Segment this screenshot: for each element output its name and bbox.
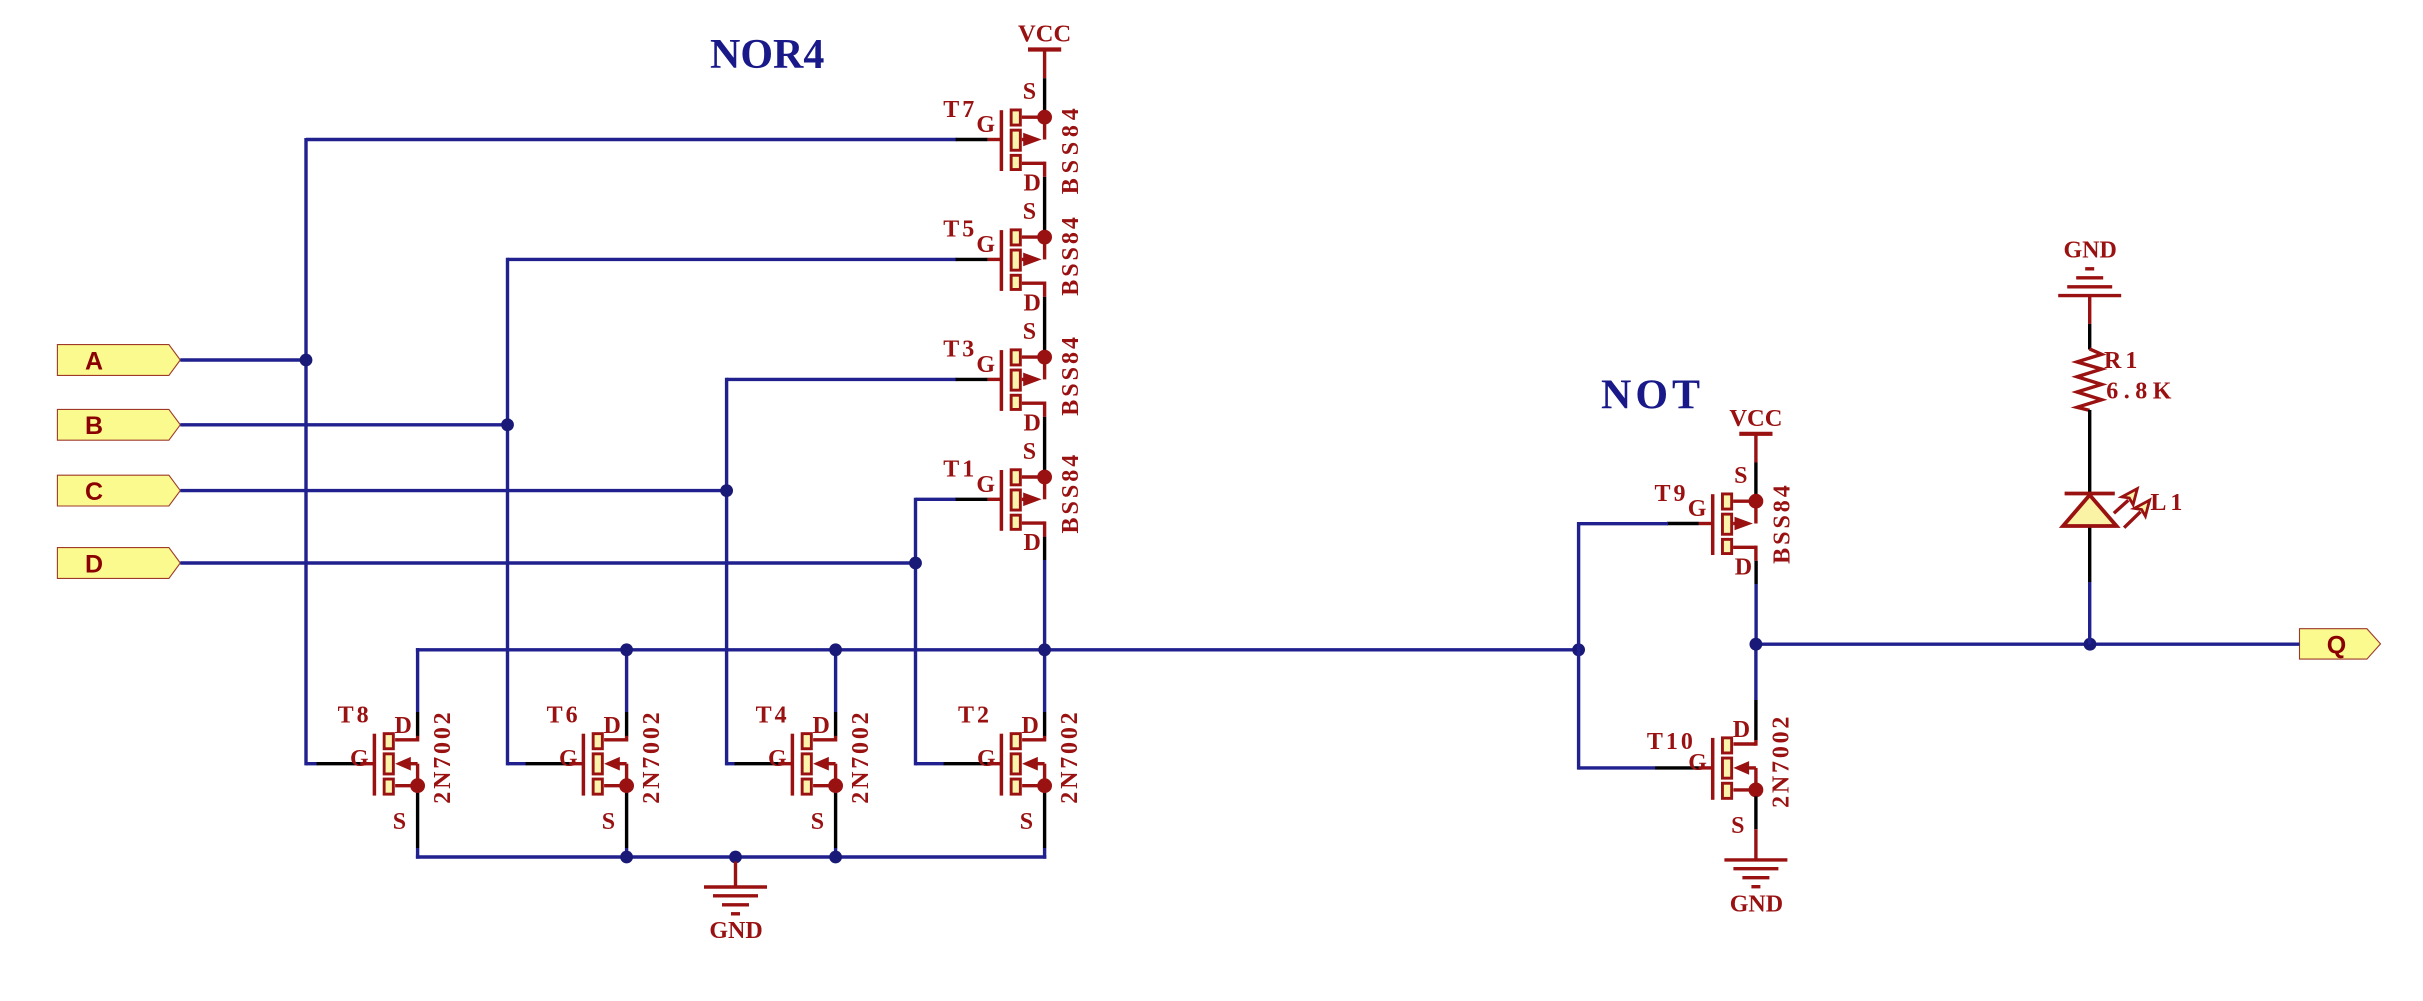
ground symbol GND (NOR4 rail) xyxy=(704,862,767,945)
wire LED to output rail xyxy=(2088,528,2091,582)
wire T2 source lead xyxy=(1043,792,1046,848)
input port flag B xyxy=(57,409,180,440)
svg-text:T8: T8 xyxy=(338,703,372,729)
svg-text:T6: T6 xyxy=(547,703,581,729)
LED L1 xyxy=(2063,489,2186,528)
power symbol VCC (NOR4) xyxy=(1018,21,1071,118)
transistor T8 (2N7002 NMOS) xyxy=(317,703,457,835)
svg-text:2N7002: 2N7002 xyxy=(848,710,874,804)
transistor T2 (2N7002 NMOS) xyxy=(944,703,1084,835)
svg-text:Q: Q xyxy=(2327,631,2346,659)
svg-text:2N7002: 2N7002 xyxy=(1057,710,1083,804)
svg-text:NOT: NOT xyxy=(1601,373,1704,419)
svg-text:GND: GND xyxy=(709,918,762,944)
output port flag Q xyxy=(2300,629,2381,660)
power symbol VCC (NOT) xyxy=(1729,405,1782,502)
svg-text:BSS84: BSS84 xyxy=(1769,482,1795,564)
input port flag C xyxy=(57,475,180,506)
resistor R1 6.8K xyxy=(2077,348,2177,410)
transistor T3 (BSS84 PMOS) xyxy=(943,319,1084,436)
svg-text:L1: L1 xyxy=(2150,490,2186,516)
transistor T4 (2N7002 NMOS) xyxy=(735,703,875,835)
junction node net C xyxy=(720,484,733,497)
ground symbol GND (NOT) xyxy=(1724,829,1787,917)
wire T3 drain to T1 source xyxy=(1043,417,1046,477)
svg-text:6.8K: 6.8K xyxy=(2106,378,2177,404)
wire net C from flag xyxy=(180,489,728,492)
wire T6 source lead xyxy=(625,792,628,848)
wire net D to T2 gate stub xyxy=(916,762,945,765)
svg-text:T7: T7 xyxy=(943,97,977,123)
wire T2 drain riser xyxy=(1043,650,1046,712)
wire NOR output rail xyxy=(416,648,1579,651)
junction node net D xyxy=(909,557,922,570)
svg-text:T1: T1 xyxy=(943,457,977,483)
junction node T2 drain / NOR out xyxy=(1038,643,1051,656)
wire T1 drain to output rail xyxy=(1043,537,1046,560)
wire T6 drain riser xyxy=(625,650,628,712)
transistor T1 (BSS84 PMOS) xyxy=(943,439,1084,556)
svg-text:T2: T2 xyxy=(958,703,992,729)
transistor T9 (BSS84 PMOS) xyxy=(1655,463,1796,580)
wire net C to T3 gate xyxy=(727,378,957,381)
wire T5 drain to T3 source xyxy=(1043,297,1046,357)
wire net D from flag xyxy=(180,561,917,564)
junction node T6 source xyxy=(620,851,633,864)
junction node NOT output xyxy=(1750,638,1763,651)
junction node ground stem xyxy=(729,851,742,864)
wire net A from flag xyxy=(180,358,307,361)
svg-text:T10: T10 xyxy=(1647,729,1696,755)
wire net C vertical riser xyxy=(725,378,728,766)
junction node T4 source xyxy=(829,851,842,864)
wire NOT input to T9 gate xyxy=(1579,522,1668,525)
svg-text:2N7002: 2N7002 xyxy=(639,710,665,804)
svg-text:R1: R1 xyxy=(2104,348,2141,374)
junction node net A xyxy=(300,354,313,367)
transistor T7 (BSS84 PMOS) xyxy=(943,79,1084,196)
wire ground rail xyxy=(416,855,1046,858)
svg-text:T5: T5 xyxy=(943,217,977,243)
wire T8 source lead xyxy=(416,792,419,848)
junction node T4 drain xyxy=(829,643,842,656)
transistor T10 (2N7002 NMOS) xyxy=(1647,714,1795,839)
input port flag D xyxy=(57,548,180,579)
junction node NOT input tee xyxy=(1572,643,1585,656)
wire NOT output rail to Q xyxy=(1756,643,2300,646)
svg-text:NOR4: NOR4 xyxy=(710,32,824,78)
wire net D to T1 gate xyxy=(916,498,957,501)
svg-text:A: A xyxy=(85,347,103,375)
wire R1 to LED xyxy=(2088,410,2091,493)
input port flag A xyxy=(57,345,180,376)
svg-text:GND: GND xyxy=(2064,238,2117,264)
wire net B from flag xyxy=(180,423,509,426)
wire T10 source lead xyxy=(1754,796,1757,829)
svg-text:2N7002: 2N7002 xyxy=(430,710,456,804)
wire net B vertical riser xyxy=(506,258,509,766)
wire T4 drain riser xyxy=(834,650,837,712)
svg-text:T9: T9 xyxy=(1655,481,1689,507)
wire net A to T8 gate stub xyxy=(306,762,318,765)
wire net B to T5 gate xyxy=(508,258,957,261)
wire net A to T7 gate xyxy=(306,138,957,141)
junction node LED branch xyxy=(2084,638,2097,651)
svg-text:D: D xyxy=(85,550,103,578)
wire T8 drain riser xyxy=(416,648,419,712)
wire T10 drain up xyxy=(1754,644,1757,700)
svg-text:BSS84: BSS84 xyxy=(1058,334,1084,416)
svg-text:C: C xyxy=(85,478,103,506)
svg-text:GND: GND xyxy=(1730,891,1783,917)
wire T9 drain down xyxy=(1754,561,1757,584)
wire NOT input riser xyxy=(1577,522,1580,770)
wire T4 source lead xyxy=(834,792,837,848)
wire GND to R1 xyxy=(2088,324,2091,350)
svg-text:T3: T3 xyxy=(943,337,977,363)
transistor T6 (2N7002 NMOS) xyxy=(526,703,666,835)
wire net B to T6 gate stub xyxy=(508,762,527,765)
wire net D vertical riser xyxy=(914,498,917,766)
wire T7 drain to T5 source xyxy=(1043,177,1046,237)
junction node T6 drain xyxy=(620,643,633,656)
transistor T5 (BSS84 PMOS) xyxy=(943,199,1084,316)
ground symbol GND (LED branch, inverted) xyxy=(2058,238,2121,324)
svg-text:BSS84: BSS84 xyxy=(1058,452,1084,534)
svg-text:BSS84: BSS84 xyxy=(1058,214,1084,296)
svg-text:2N7002: 2N7002 xyxy=(1768,714,1794,808)
wire net A vertical riser xyxy=(304,138,307,765)
svg-text:BSS84: BSS84 xyxy=(1058,103,1084,194)
svg-text:B: B xyxy=(85,412,103,440)
wire NOT input to T10 gate xyxy=(1579,766,1656,769)
svg-text:T4: T4 xyxy=(756,703,790,729)
wire net C to T4 gate stub xyxy=(727,762,736,765)
junction node net B xyxy=(501,418,514,431)
